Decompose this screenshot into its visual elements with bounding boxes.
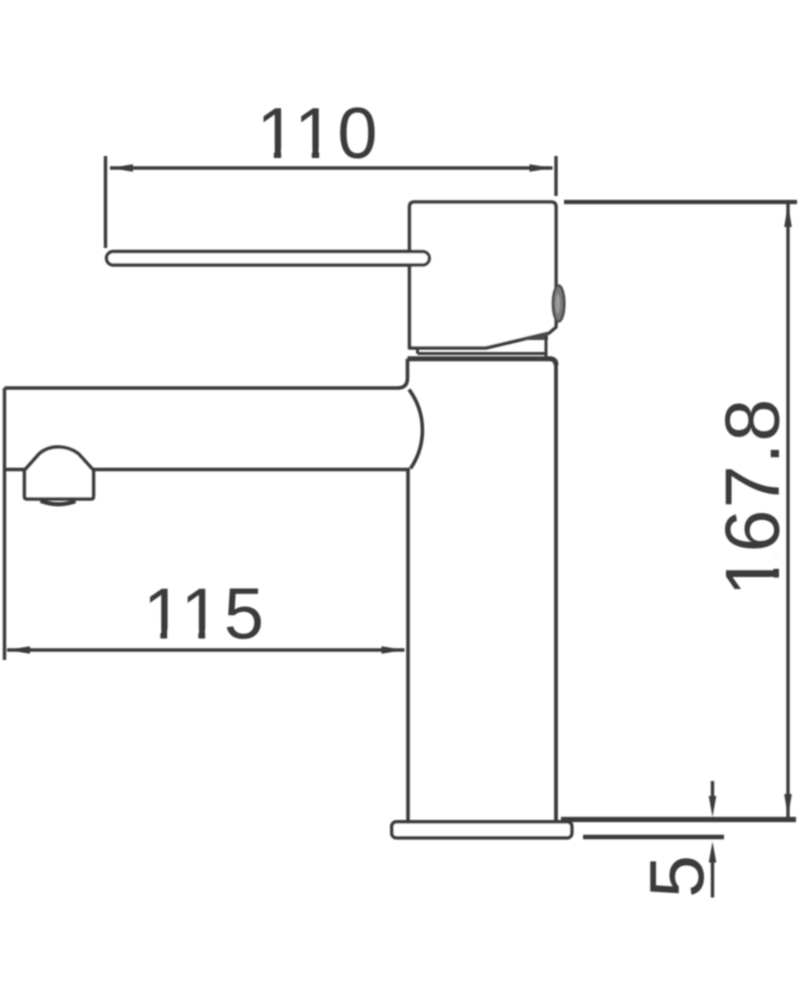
- column (riser) right edge: [554, 364, 558, 820]
- spout arm top edge: [5, 386, 400, 390]
- aerator screen arc: [41, 501, 76, 504]
- dimension 167.8: bottom arrowhead: [784, 794, 792, 817]
- dimension 115: right arrowhead: [382, 646, 405, 654]
- dimension 110: dimension line: [110, 166, 553, 169]
- spout arm bottom edge: [5, 468, 411, 472]
- dimension 167.8: top extension line: [564, 200, 797, 204]
- svg-text:110: 110: [257, 94, 381, 174]
- column neck top edge (thick): [408, 359, 557, 365]
- base bottom reference line (5 dimension lower reference): [583, 835, 724, 839]
- dimension 115: dimension line: [7, 648, 405, 651]
- dimension 110: left arrowhead: [110, 164, 133, 172]
- counter surface line (right of base, 167.8 bottom reference): [561, 817, 796, 822]
- lever handle bar: [107, 252, 430, 266]
- spout tip left edge + 115 extension line: [3, 388, 6, 660]
- dimension 110: right extension line: [554, 156, 557, 196]
- faucet body (handle housing): [410, 202, 557, 348]
- dimension 110: left extension line: [104, 156, 107, 248]
- base plate: [392, 822, 572, 838]
- dimension 5: upper leader with down arrowhead: [711, 781, 714, 800]
- white patches: remove Liberation "1" foot serifs (target uses Arial-style 1): [147, 150, 783, 644]
- column left edge upper, fillet into spout top: [398, 359, 408, 388]
- dimension 167.8: dimension line: [786, 204, 789, 817]
- dimension 5: lower leader with up arrowhead: [711, 858, 714, 898]
- side set-screw oval on body right edge: [553, 286, 565, 322]
- column left edge lower: [406, 470, 410, 820]
- collar ring between body and column: [418, 337, 547, 358]
- aerator (tent dome + body, white fill over spout line): [25, 447, 94, 499]
- svg-text:115: 115: [143, 575, 267, 655]
- wedge shadow under lever base diagonal: [518, 332, 548, 341]
- svg-text:5: 5: [635, 855, 721, 898]
- spout end-cap arc inside column: [409, 390, 422, 469]
- svg-text:167.8: 167.8: [710, 398, 796, 597]
- dimension 167.8: top arrowhead: [784, 204, 792, 227]
- dimension 115: left arrowhead: [7, 646, 30, 654]
- dimension 110: right arrowhead: [530, 164, 553, 172]
